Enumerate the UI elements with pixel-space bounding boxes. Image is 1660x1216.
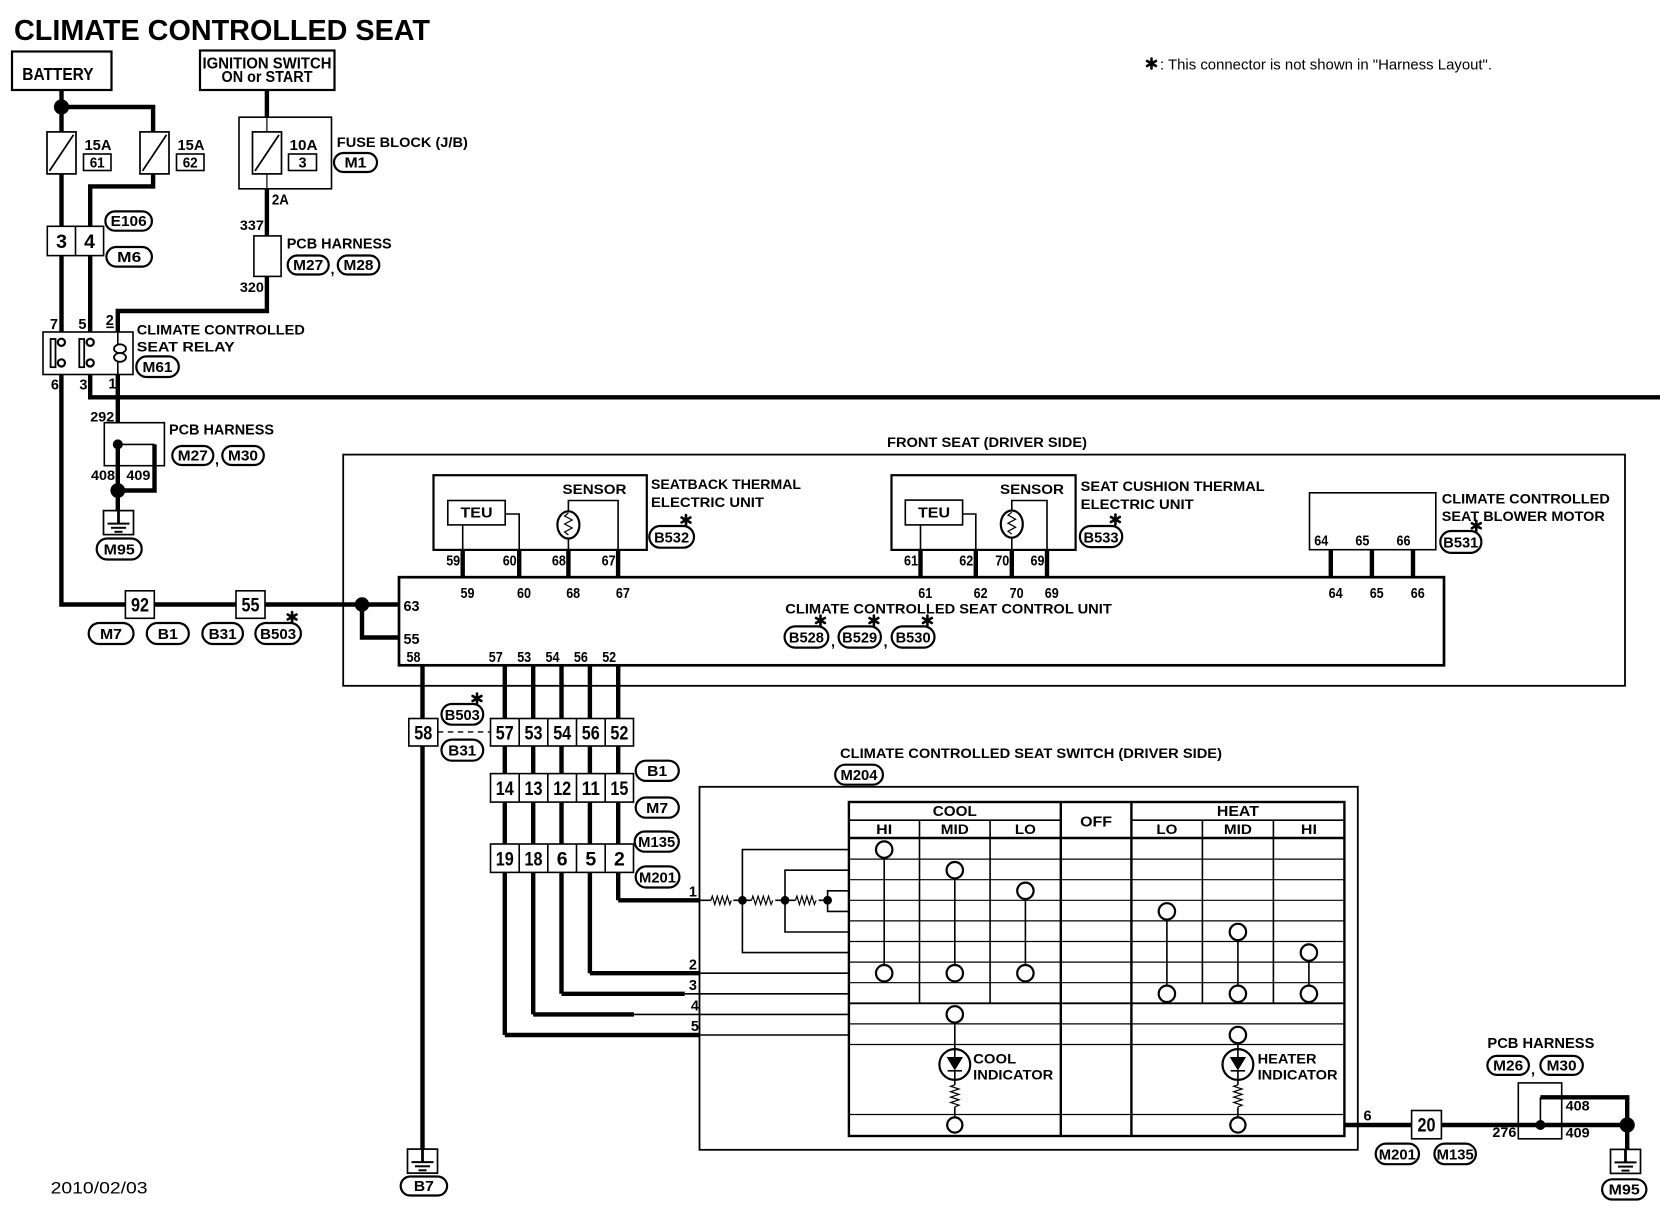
wire switch pin5 xyxy=(505,1033,700,1037)
wire pin 62 xyxy=(974,550,978,577)
svg-text:54: 54 xyxy=(553,723,571,745)
wire pin 68 xyxy=(566,550,570,577)
wire col 53 down xyxy=(531,665,535,1014)
svg-text:10A: 10A xyxy=(290,138,319,154)
wire relay pin6 down to horizontal run xyxy=(61,375,362,605)
svg-text:56: 56 xyxy=(582,723,600,745)
resistor R2 xyxy=(752,896,773,904)
seatback sensor loop wire pin67 xyxy=(568,501,618,550)
cushion sensor wire pin70 xyxy=(1011,538,1013,550)
resistor R1 xyxy=(711,896,731,904)
svg-text:67: 67 xyxy=(602,554,616,570)
connector B1 oval xyxy=(147,623,189,644)
cool indicator feed bar xyxy=(954,1014,956,1049)
svg-text:M28: M28 xyxy=(344,258,374,274)
fuse 15A 61 xyxy=(47,132,76,174)
svg-text:55: 55 xyxy=(242,595,260,617)
seatback TEU wire pin59 xyxy=(462,525,464,550)
connector M27 oval xyxy=(172,446,213,465)
wire pin 69 xyxy=(1045,550,1049,577)
connector M30 oval (bottom) xyxy=(1540,1056,1582,1075)
svg-text:SEAT BLOWER MOTOR: SEAT BLOWER MOTOR xyxy=(1442,509,1605,524)
node tap1 xyxy=(738,896,747,905)
wire junction to ground M95 xyxy=(1625,1125,1629,1149)
relay contact bar 1 xyxy=(51,339,56,367)
wire switch pin2 thin xyxy=(700,972,849,974)
svg-text:3: 3 xyxy=(689,978,697,994)
svg-text:M135: M135 xyxy=(638,835,675,851)
svg-text:53: 53 xyxy=(525,723,543,745)
svg-text:M7: M7 xyxy=(100,627,122,643)
svg-text:2: 2 xyxy=(689,958,697,974)
contact circles heat xyxy=(1159,903,1175,919)
table outer border xyxy=(849,802,1345,1136)
svg-text:67: 67 xyxy=(616,586,630,602)
node battery junction xyxy=(54,99,69,114)
fuse 10A 3 xyxy=(253,132,282,174)
connector E106 oval xyxy=(105,211,151,230)
svg-text:M26: M26 xyxy=(1493,1059,1523,1075)
svg-text:B530: B530 xyxy=(896,631,931,647)
wire 2A fuse block down xyxy=(265,189,269,236)
connector M26 oval xyxy=(1487,1056,1529,1075)
connector M201 oval (bottom) xyxy=(1376,1144,1419,1165)
svg-text:OFF: OFF xyxy=(1080,815,1112,831)
relay contact circles pin7/6 xyxy=(58,339,65,346)
wire pin 60 xyxy=(517,550,521,577)
connector M61 oval xyxy=(136,356,179,377)
climate controlled seat switch box xyxy=(700,787,1358,1150)
relay coil xyxy=(114,332,126,375)
wire ignition to fuse block xyxy=(265,90,269,117)
wire pin 66 xyxy=(1411,550,1415,578)
wire pin 64 xyxy=(1329,550,1333,578)
contact bar cool HI xyxy=(883,850,885,974)
wire 20 box to pcb harness xyxy=(1441,1123,1518,1127)
connector M135 oval (bottom) xyxy=(1434,1144,1476,1165)
connector M1 oval xyxy=(334,153,377,172)
dashed link 58 to 57 xyxy=(438,731,491,733)
svg-text:,: , xyxy=(331,262,335,278)
connector box 92 xyxy=(125,591,154,619)
svg-text:B1: B1 xyxy=(647,764,667,780)
svg-text:57: 57 xyxy=(496,723,514,745)
connector M30 oval xyxy=(222,446,263,465)
svg-text:65: 65 xyxy=(1355,534,1369,550)
connector box 20 xyxy=(1412,1111,1442,1139)
connector M135 oval (right) xyxy=(635,832,679,852)
connector B31 oval xyxy=(202,623,243,644)
relay contact bar 2 xyxy=(79,339,84,367)
svg-text:LO: LO xyxy=(1015,822,1036,837)
svg-text:2A: 2A xyxy=(272,193,289,209)
table header separators xyxy=(849,820,1345,1003)
svg-text:60: 60 xyxy=(503,554,517,570)
connector row boxes 19 18 6 5 2 xyxy=(491,844,634,872)
svg-text:M95: M95 xyxy=(1609,1183,1640,1199)
svg-text:54: 54 xyxy=(546,650,560,666)
wire battery branch to fuse 62 xyxy=(62,107,154,132)
svg-text:CLIMATE CONTROLLED: CLIMATE CONTROLLED xyxy=(1442,492,1610,507)
svg-text:SEATBACK THERMAL: SEATBACK THERMAL xyxy=(651,477,801,492)
svg-text:64: 64 xyxy=(1314,534,1328,550)
svg-text:HI: HI xyxy=(876,822,892,837)
seat cushion thermal electric unit box xyxy=(892,475,1076,550)
node tap3 xyxy=(823,896,832,905)
fuse 61 number box xyxy=(84,154,112,171)
wire fuse 61 to connector box 3 xyxy=(59,174,63,227)
wire battery to fuse 61 xyxy=(59,90,63,132)
svg-text:B529: B529 xyxy=(842,631,877,647)
svg-text:HI: HI xyxy=(1301,822,1317,837)
svg-text:TEU: TEU xyxy=(918,506,950,522)
svg-text:B503: B503 xyxy=(260,627,296,643)
svg-text:62: 62 xyxy=(959,554,973,570)
svg-text:M7: M7 xyxy=(646,801,668,817)
svg-text:7: 7 xyxy=(50,317,58,333)
heater indicator feed bar xyxy=(1237,1035,1239,1049)
node harness junction (bottom) xyxy=(1535,1120,1545,1130)
svg-text:MID: MID xyxy=(941,822,969,837)
svg-text:6: 6 xyxy=(1364,1109,1372,1125)
wire pin 67 xyxy=(616,550,620,577)
connector B530 oval with star xyxy=(892,616,935,648)
svg-text:5: 5 xyxy=(78,317,86,333)
contact bar heat LO xyxy=(1166,911,1168,993)
ground M95 right xyxy=(1611,1149,1641,1173)
svg-text:61: 61 xyxy=(90,156,105,172)
svg-text:4: 4 xyxy=(691,999,699,1015)
svg-text:1: 1 xyxy=(108,377,116,393)
svg-text:MID: MID xyxy=(1224,822,1252,837)
wire inside fuse block upper xyxy=(266,117,268,132)
svg-text:CLIMATE CONTROLLED: CLIMATE CONTROLLED xyxy=(137,323,305,338)
svg-text:B31: B31 xyxy=(209,627,237,643)
wire switch pin6 out xyxy=(1344,1123,1411,1127)
cushion sensor thermistor xyxy=(1001,510,1023,537)
svg-text:FUSE BLOCK (J/B): FUSE BLOCK (J/B) xyxy=(337,135,468,150)
cushion TEU wire pin62 xyxy=(963,514,976,550)
connector B503 oval with star (mid) xyxy=(442,694,484,725)
wire pin 65 xyxy=(1370,550,1374,578)
svg-text:HEATER: HEATER xyxy=(1258,1052,1317,1067)
wire col 54 down xyxy=(559,665,563,994)
svg-text:92: 92 xyxy=(131,595,149,617)
svg-text:5: 5 xyxy=(585,849,596,871)
table row lines xyxy=(849,859,1345,1114)
svg-text:14: 14 xyxy=(496,778,514,800)
svg-text:63: 63 xyxy=(404,599,420,615)
svg-text:3: 3 xyxy=(56,231,67,253)
cool bottom contact circle xyxy=(947,1117,962,1132)
wire box3 to relay pin7 xyxy=(59,256,63,332)
svg-text:,: , xyxy=(884,635,888,651)
svg-text:CLIMATE CONTROLLED SEAT SWITCH: CLIMATE CONTROLLED SEAT SWITCH (DRIVER S… xyxy=(840,746,1222,761)
resistor R3 xyxy=(796,896,817,904)
contact bar heat MID xyxy=(1237,932,1239,994)
svg-text:M30: M30 xyxy=(1547,1059,1577,1075)
relay contact circles pin5/3 xyxy=(87,339,94,346)
cushion TEU wire pin61 xyxy=(920,525,922,550)
svg-text:LO: LO xyxy=(1156,822,1177,837)
seatback sensor thermistor xyxy=(557,511,579,538)
fuse 15A 62 xyxy=(140,132,169,174)
svg-text:409: 409 xyxy=(126,467,150,483)
node harness junction xyxy=(113,439,123,449)
svg-text:59: 59 xyxy=(461,586,475,602)
svg-text:68: 68 xyxy=(566,586,580,602)
heater bottom contact circle xyxy=(1230,1117,1245,1132)
svg-text:58: 58 xyxy=(414,723,432,745)
wire pin 61 xyxy=(918,550,922,577)
svg-text:ELECTRIC UNIT: ELECTRIC UNIT xyxy=(651,495,765,510)
fuse block (J/B) box xyxy=(239,117,332,189)
node ground junction (bottom right) xyxy=(1620,1117,1635,1132)
connector M95 oval xyxy=(97,539,142,560)
pcb harness box M27 M30 xyxy=(104,423,164,466)
contact bar heat HI xyxy=(1308,953,1310,994)
svg-text:M27: M27 xyxy=(293,258,323,274)
svg-text:69: 69 xyxy=(1045,586,1059,602)
svg-text:INDICATOR: INDICATOR xyxy=(973,1068,1053,1083)
resistor chain pin 1 lead xyxy=(700,899,712,901)
svg-text:,: , xyxy=(831,635,835,651)
node control unit feed junction xyxy=(355,597,369,611)
svg-text:B533: B533 xyxy=(1084,531,1119,547)
svg-text:ON or START: ON or START xyxy=(222,69,313,86)
battery box xyxy=(12,52,112,91)
svg-text:65: 65 xyxy=(1370,586,1384,602)
svg-text:11: 11 xyxy=(582,778,600,800)
wire relay pin3 long feed to right edge xyxy=(90,375,1660,398)
ground B7 xyxy=(408,1149,438,1173)
front seat (driver side) box xyxy=(343,455,1625,686)
connector B31 oval (mid) xyxy=(442,740,484,761)
wire switch pin1 xyxy=(618,898,699,902)
seatback thermal electric unit box xyxy=(434,475,647,550)
fuse 62 number box xyxy=(177,154,205,171)
svg-text:3: 3 xyxy=(79,378,87,394)
svg-text:B503: B503 xyxy=(445,708,480,724)
svg-text:59: 59 xyxy=(446,554,460,570)
svg-text:13: 13 xyxy=(525,778,543,800)
wire pin 58 down to B7 ground xyxy=(420,665,424,1149)
svg-text:55: 55 xyxy=(404,632,420,648)
ignition switch box xyxy=(200,51,335,91)
connector B531 oval with star xyxy=(1440,521,1481,553)
indicator feed circles xyxy=(947,1006,963,1022)
svg-text:2010/02/03: 2010/02/03 xyxy=(51,1180,148,1198)
climate controlled seat control unit box xyxy=(399,577,1444,665)
svg-text:64: 64 xyxy=(1329,586,1343,602)
wire fuse 62 to connector box 4 xyxy=(90,174,153,227)
svg-text:15: 15 xyxy=(610,778,628,800)
svg-text:TEU: TEU xyxy=(461,506,493,522)
wire pin 59 xyxy=(461,550,465,577)
svg-text:HEAT: HEAT xyxy=(1217,804,1259,820)
svg-text:62: 62 xyxy=(183,156,198,172)
svg-text:PCB HARNESS: PCB HARNESS xyxy=(1487,1036,1594,1052)
seatback sensor wire pin68 xyxy=(567,539,569,550)
connector B529 oval with star xyxy=(839,616,881,648)
svg-text:15A: 15A xyxy=(178,138,206,154)
svg-text:,: , xyxy=(1531,1063,1535,1079)
svg-text:12: 12 xyxy=(553,778,571,800)
node ground junction xyxy=(110,483,125,498)
svg-text:409: 409 xyxy=(1566,1125,1590,1141)
svg-text:60: 60 xyxy=(517,586,531,602)
svg-text:62: 62 xyxy=(974,586,988,602)
wire col 57 down xyxy=(503,665,507,1035)
wire switch pin2 xyxy=(590,971,700,975)
svg-text:52: 52 xyxy=(602,650,616,666)
wire col 52 down xyxy=(616,665,620,900)
connector row boxes 14 13 12 11 15 xyxy=(491,774,634,803)
svg-text:CLIMATE CONTROLLED SEAT: CLIMATE CONTROLLED SEAT xyxy=(14,15,431,47)
connector B532 oval with star xyxy=(649,515,694,548)
wire switch pin4 xyxy=(533,1012,634,1016)
connector M28 oval xyxy=(338,256,380,275)
svg-text:56: 56 xyxy=(574,650,588,666)
svg-text:5: 5 xyxy=(691,1019,699,1035)
wire 409 harness to junction xyxy=(1540,1123,1627,1127)
connector B533 oval with star xyxy=(1080,515,1122,548)
svg-text:4: 4 xyxy=(84,231,95,253)
tap2 wires xyxy=(785,870,849,900)
connector B1 oval (right) xyxy=(636,761,679,781)
node tap2 xyxy=(781,896,790,905)
svg-text:61: 61 xyxy=(918,586,932,602)
svg-text:20: 20 xyxy=(1418,1115,1436,1137)
seatback TEU box xyxy=(448,501,505,525)
svg-text:ELECTRIC UNIT: ELECTRIC UNIT xyxy=(1081,497,1195,512)
svg-text:70: 70 xyxy=(1010,586,1024,602)
svg-text:M6: M6 xyxy=(117,250,141,266)
svg-text:M95: M95 xyxy=(104,543,135,559)
svg-text:19: 19 xyxy=(496,849,514,871)
svg-text:INDICATOR: INDICATOR xyxy=(1258,1068,1338,1083)
svg-text:6: 6 xyxy=(51,378,59,394)
tap3 wires xyxy=(828,891,849,901)
contact bar cool MID xyxy=(954,870,956,973)
wire switch pin3 xyxy=(562,992,685,996)
wire junction to pin 63 xyxy=(362,602,399,606)
svg-text:B31: B31 xyxy=(448,744,476,760)
svg-text:M30: M30 xyxy=(228,449,258,465)
svg-text:COOL: COOL xyxy=(933,804,977,820)
svg-text:66: 66 xyxy=(1411,586,1425,602)
svg-text:: This connector is not shown: : This connector is not shown in "Harnes… xyxy=(1160,57,1492,74)
tap1 wires xyxy=(742,850,849,901)
heater indicator resistor xyxy=(1234,1085,1242,1107)
connector B503 oval with star xyxy=(255,612,301,644)
svg-text:58: 58 xyxy=(407,650,421,666)
svg-text:M135: M135 xyxy=(1437,1148,1474,1164)
wire relay pin1 down to pcb harness xyxy=(116,375,120,445)
seatback TEU wire pin60 xyxy=(505,514,519,550)
svg-text:M201: M201 xyxy=(639,871,676,887)
wire inside fuse block lower xyxy=(266,174,268,189)
wire inside harness to 408 xyxy=(116,444,120,490)
svg-text:PCB HARNESS: PCB HARNESS xyxy=(169,423,274,439)
svg-text:M61: M61 xyxy=(143,360,173,376)
contact bar cool LO xyxy=(1024,891,1026,973)
svg-text:FRONT SEAT (DRIVER SIDE): FRONT SEAT (DRIVER SIDE) xyxy=(887,435,1087,450)
svg-text:BATTERY: BATTERY xyxy=(22,64,94,84)
connector B528 oval with star xyxy=(785,616,829,648)
svg-text:337: 337 xyxy=(240,217,264,233)
svg-text:6: 6 xyxy=(557,849,568,871)
note asterisk xyxy=(1147,59,1156,69)
svg-text:18: 18 xyxy=(525,849,543,871)
connector M7 oval (right) xyxy=(636,798,679,818)
svg-text:SENSOR: SENSOR xyxy=(1000,482,1064,497)
switch table background xyxy=(849,802,1345,1136)
wire 276 into harness xyxy=(1518,1123,1540,1127)
contact circles cool xyxy=(876,841,892,857)
svg-text:M204: M204 xyxy=(841,768,878,784)
svg-text:70: 70 xyxy=(995,554,1009,570)
svg-text:E106: E106 xyxy=(111,214,147,230)
svg-text:M1: M1 xyxy=(345,156,367,172)
svg-text:B532: B532 xyxy=(654,531,689,547)
wire box4 to relay pin5 xyxy=(88,256,92,332)
svg-text:SENSOR: SENSOR xyxy=(563,482,627,497)
svg-text:SEAT RELAY: SEAT RELAY xyxy=(137,340,235,355)
cool indicator resistor xyxy=(951,1085,959,1107)
connector M27 oval xyxy=(288,256,329,275)
connector M7 oval xyxy=(89,623,134,644)
connector row boxes 57 53 54 56 52 xyxy=(491,719,634,747)
cushion TEU box xyxy=(905,500,962,525)
svg-text:B1: B1 xyxy=(158,627,178,643)
svg-text:408: 408 xyxy=(1566,1098,1590,1114)
connector M6 oval xyxy=(106,247,151,267)
svg-text:B528: B528 xyxy=(789,631,824,647)
svg-text:M27: M27 xyxy=(178,449,208,465)
svg-text:66: 66 xyxy=(1397,534,1411,550)
svg-text:SEAT CUSHION THERMAL: SEAT CUSHION THERMAL xyxy=(1081,479,1265,494)
pcb harness box M27 M28 xyxy=(254,236,281,277)
wire junction to ground xyxy=(116,491,120,511)
connector box 55 xyxy=(236,591,265,619)
svg-text:M201: M201 xyxy=(1379,1148,1416,1164)
svg-text:61: 61 xyxy=(904,554,918,570)
svg-text:276: 276 xyxy=(1492,1124,1516,1140)
cool indicator LED xyxy=(939,1049,970,1085)
connector M204 oval xyxy=(835,765,883,785)
heater indicator LED xyxy=(1223,1049,1254,1085)
svg-text:B531: B531 xyxy=(1443,536,1478,552)
svg-text:53: 53 xyxy=(517,650,531,666)
table thick lines xyxy=(849,802,1345,1136)
svg-text:320: 320 xyxy=(240,279,264,295)
svg-text:52: 52 xyxy=(610,723,628,745)
svg-text:B7: B7 xyxy=(414,1179,434,1195)
svg-text:68: 68 xyxy=(552,554,566,570)
svg-text:57: 57 xyxy=(489,650,503,666)
ground M95 left xyxy=(104,511,134,535)
svg-text:CLIMATE CONTROLLED SEAT CONTRO: CLIMATE CONTROLLED SEAT CONTROL UNIT xyxy=(785,601,1112,617)
svg-text:3: 3 xyxy=(298,156,306,172)
connector E106/M6 box 3|4 xyxy=(47,226,103,255)
svg-text:PCB HARNESS: PCB HARNESS xyxy=(287,237,392,253)
svg-text:COOL: COOL xyxy=(973,1052,1016,1067)
svg-text:2: 2 xyxy=(614,849,625,871)
wire switch pin5 thin xyxy=(700,1034,849,1036)
fuse 3 number box xyxy=(289,154,317,171)
climate controlled seat blower motor box xyxy=(1310,493,1436,550)
